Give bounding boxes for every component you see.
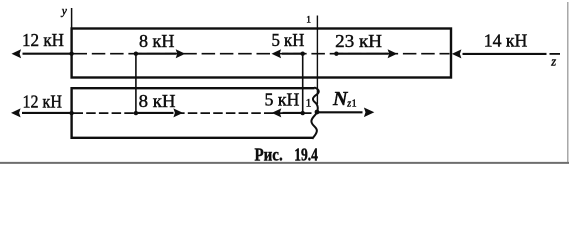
top bar centerline (z axis, dashed) bbox=[74, 53, 450, 55]
internal force arrow N_z1 (pointing right) bbox=[317, 108, 374, 118]
node: 8 kN application point (top bar) bbox=[134, 52, 138, 56]
node: 23 kN application point bbox=[334, 52, 338, 56]
svg-text:z: z bbox=[550, 55, 556, 69]
bottom bar outline with wavy cut edge bbox=[72, 87, 319, 139]
svg-text:1: 1 bbox=[306, 16, 311, 26]
label 8 kN (top) bbox=[139, 31, 174, 51]
bottom bar centerline (dashed) bbox=[74, 112, 312, 114]
caption: Рис. 19.4 bbox=[255, 145, 318, 165]
svg-text:8 кН: 8 кН bbox=[139, 91, 176, 111]
label 8 kN (bottom) bbox=[139, 91, 176, 111]
label 5 kN (bottom) bbox=[265, 90, 300, 110]
label 12 kN (top) bbox=[22, 30, 64, 50]
force arrow 23 kN (top bar, pointing right) bbox=[336, 49, 397, 58]
force arrow 5 kN (top bar, pointing left) bbox=[272, 49, 303, 58]
connector line at 5 kN application (x=302.7) bbox=[302, 54, 304, 113]
svg-text:12 кН: 12 кН bbox=[22, 30, 64, 50]
label 5 kN (top) bbox=[272, 30, 305, 50]
svg-text:1: 1 bbox=[352, 98, 357, 109]
section line 1-1 bbox=[316, 16, 318, 105]
top bar outline bbox=[72, 29, 451, 78]
node: 5 kN application point (top bar) bbox=[301, 52, 305, 56]
svg-text:12 кН: 12 кН bbox=[23, 91, 62, 111]
svg-text:14 кН: 14 кН bbox=[484, 31, 528, 51]
svg-text:z: z bbox=[346, 98, 351, 109]
force arrow 8 kN (bottom bar, pointing right) bbox=[136, 108, 183, 117]
node: left end of top bar centerline bbox=[69, 52, 73, 56]
bottom page border bbox=[0, 162, 569, 164]
z axis dash beyond 14 kN arrow bbox=[550, 53, 561, 55]
node: 8 kN application point (bottom bar) bbox=[134, 111, 138, 115]
force arrow 12 kN (top bar, pointing left) bbox=[12, 49, 72, 58]
svg-text:Рис.: Рис. bbox=[255, 145, 283, 165]
node: 5 kN application point (bottom bar) bbox=[301, 111, 305, 115]
force arrow 8 kN (top bar, pointing right) bbox=[136, 49, 185, 58]
right page border bbox=[567, 2, 569, 162]
label N_z1 bbox=[332, 88, 357, 110]
label 14 kN bbox=[484, 31, 528, 51]
force arrow 14 kN (pointing left at right end of top bar) bbox=[452, 49, 547, 58]
label 12 kN (bottom) bbox=[23, 91, 62, 111]
svg-text:23 кН: 23 кН bbox=[335, 31, 382, 51]
z axis label bbox=[550, 55, 556, 69]
svg-text:8 кН: 8 кН bbox=[139, 31, 174, 51]
svg-text:5 кН: 5 кН bbox=[265, 90, 300, 110]
force arrow 5 kN (bottom bar, pointing left) bbox=[272, 108, 303, 117]
section label 1 (bottom) bbox=[306, 98, 312, 110]
node: left end of bottom bar centerline bbox=[69, 111, 73, 115]
connector line at 8 kN application (x=135.9) bbox=[135, 54, 137, 113]
y axis label bbox=[61, 5, 68, 17]
section label 1 (top) bbox=[306, 16, 311, 26]
force arrow 12 kN (bottom bar, pointing left) bbox=[11, 108, 72, 117]
node: N_z1 application point on cut face bbox=[315, 110, 320, 115]
svg-text:19.4: 19.4 bbox=[294, 145, 318, 165]
label 23 kN bbox=[335, 31, 382, 51]
y axis bbox=[71, 8, 73, 30]
svg-text:1: 1 bbox=[306, 98, 312, 110]
svg-text:y: y bbox=[61, 5, 68, 17]
svg-text:5 кН: 5 кН bbox=[272, 30, 305, 50]
